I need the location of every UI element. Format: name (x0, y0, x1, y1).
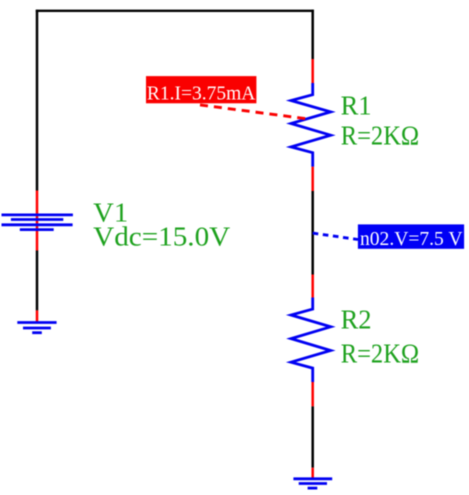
wire right vertical black lower (311, 406, 314, 467)
current probe leader dashed red (200, 105, 305, 119)
wire red R1 bottom pin (311, 167, 314, 191)
svg-text:R1.I=3.75mA: R1.I=3.75mA (147, 83, 256, 104)
ground right bar 1 (293, 477, 332, 480)
svg-text:R=2KΩ: R=2KΩ (341, 339, 420, 369)
wire right vertical black upper (311, 10, 314, 59)
wire red ground pin right (311, 468, 314, 478)
battery V1 plate 4 (20, 228, 54, 231)
wire red R2 top pin (311, 275, 314, 298)
battery V1 plate 1 (2, 213, 73, 216)
resistor R2 (291, 298, 331, 383)
wire red ground pin left (36, 310, 39, 321)
ground right bar 3 (308, 487, 318, 490)
svg-text:R=2KΩ: R=2KΩ (341, 121, 420, 151)
svg-text:Vdc=15.0V: Vdc=15.0V (93, 221, 231, 251)
ground left bar 1 (17, 321, 56, 324)
voltage probe label n02.V box (358, 224, 464, 248)
battery V1 plate 3 (2, 223, 73, 226)
svg-text:n02.V=7.5 V: n02.V=7.5 V (360, 228, 463, 250)
wire red R1 top pin (311, 59, 314, 83)
svg-text:R1: R1 (341, 90, 372, 120)
wire node n02 black (311, 191, 314, 275)
current probe label R1.I box (146, 76, 256, 103)
ground left bar 3 (32, 331, 42, 334)
wire red R2 bottom pin (311, 382, 314, 406)
wire top horizontal (36, 10, 314, 12)
voltage probe leader dashed blue (313, 233, 358, 239)
resistor R1 (291, 83, 331, 167)
battery V1 plate 2 (11, 218, 63, 221)
wire left vertical black lower (36, 251, 39, 311)
wire left vertical black upper (36, 10, 39, 191)
ground left bar 2 (23, 327, 51, 330)
wire red V1 positive pin (36, 191, 39, 251)
svg-text:R2: R2 (341, 304, 372, 334)
ground right bar 2 (299, 482, 327, 485)
